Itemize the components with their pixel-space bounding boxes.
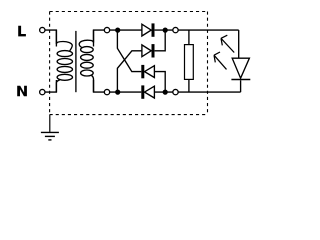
transformer primary winding [56,30,72,51]
resistor R bottom lead [188,79,190,92]
diode D3 [141,65,144,78]
LED triangle [232,58,249,78]
label L [18,26,26,37]
- output circle [173,89,178,94]
terminal L circle [40,27,45,32]
terminal N circle [40,89,45,94]
label N [17,86,27,97]
wire cross: top node to D3 [117,30,141,72]
junction dot top-left [115,28,120,33]
junction dot bottom-left [115,90,120,95]
LED light arrow 2 [214,52,227,69]
wire N input [45,80,57,92]
transformer core [75,31,77,92]
diode D2 [142,45,151,57]
junction dot bottom-right [163,90,168,95]
dashed enclosure box right edge [207,12,209,115]
wire + rail down to LED [238,30,240,58]
dashed enclosure box top edge [50,11,208,13]
ground bar 1 [41,131,59,133]
LED bottom wire [240,80,242,92]
wire D2 cathode up to + node [155,30,166,51]
dashed enclosure box left edge [49,12,51,115]
dashed enclosure box bottom edge [50,114,208,116]
resistor R top lead [188,30,190,44]
wire L input [45,30,57,46]
wire cross: bottom node to D2 [117,51,141,92]
wire secondary bottom to bridge [94,80,142,92]
diode D1 [142,24,151,36]
wire secondary top to bridge [94,30,143,46]
wire D1 cathode / + rail to LED [155,29,239,31]
ground stem [49,115,51,132]
secondary top circle [104,27,109,32]
wire - rail to LED [154,91,240,93]
wire D3 anode down to - node [154,72,165,93]
transformer secondary winding [79,30,93,47]
diode D4 [141,85,144,98]
resistor R body [185,45,194,80]
LED light arrow 1 [221,35,234,52]
ground bar 3 [48,139,51,141]
LED cathode bar [231,79,250,81]
ground bar 2 [45,135,55,137]
+ output circle [173,27,178,32]
junction dot top-right [163,28,168,33]
secondary bottom circle [104,89,109,94]
